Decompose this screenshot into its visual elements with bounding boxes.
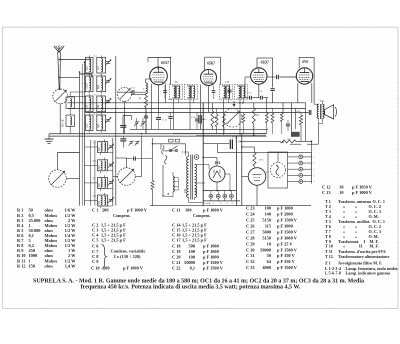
svg-text:C 21: C 21 [172, 260, 181, 265]
svg-text:p F 1500 V: p F 1500 V [203, 266, 224, 271]
svg-text:Trasform. d'uscita per 6V6: Trasform. d'uscita per 6V6 [338, 249, 386, 254]
svg-text:C 31: C 31 [246, 253, 255, 258]
svg-text:C 10: C 10 [91, 266, 100, 271]
svg-text:50000: 50000 [184, 260, 195, 265]
svg-text:C 33: C 33 [246, 265, 255, 270]
svg-text:140: 140 [264, 212, 271, 217]
svg-text:p F 25 V: p F 25 V [277, 241, 293, 246]
svg-text:p F 1000: p F 1000 [203, 249, 219, 254]
svg-text:C 5: C 5 [92, 238, 99, 243]
svg-text:1: 1 [213, 203, 214, 205]
svg-text:L02: L02 [86, 123, 89, 128]
svg-text:2: 2 [220, 203, 221, 205]
svg-text:p F 1000 V: p F 1000 V [123, 266, 144, 271]
svg-text:C 27: C 27 [246, 229, 255, 234]
svg-text:C 1: C 1 [92, 208, 98, 213]
svg-text:L01A: L01A [86, 83, 89, 89]
svg-text:ohm: ohm [45, 263, 54, 268]
svg-text:C 19: C 19 [172, 249, 181, 254]
svg-text:1,5 ÷ 21,5 p F: 1,5 ÷ 21,5 p F [182, 238, 207, 243]
svg-text:6: 6 [313, 175, 314, 177]
svg-text:p F 350 V: p F 350 V [277, 253, 296, 258]
svg-text:2 x (130 ÷ 320): 2 x (130 ÷ 320) [114, 254, 142, 259]
svg-text:5150: 5150 [262, 218, 271, 223]
svg-text:4: 4 [313, 163, 314, 165]
svg-text:T11: T11 [320, 100, 325, 103]
svg-text:L 5-6-7-8: L 5-6-7-8 [325, 270, 341, 275]
svg-text:II: II [359, 244, 363, 249]
svg-text:5Y3: 5Y3 [215, 161, 221, 165]
svg-text:»: » [343, 244, 345, 249]
svg-text:C 11: C 11 [172, 208, 180, 213]
svg-text:p F 1500 V: p F 1500 V [277, 247, 298, 252]
svg-text:Lamp.: Lamp. [204, 202, 211, 205]
svg-text:L03: L03 [86, 104, 89, 109]
svg-text:C 24: C 24 [246, 212, 255, 217]
svg-text:F60: F60 [97, 104, 100, 109]
svg-text:T10: T10 [225, 81, 230, 84]
svg-text:p F 1000: p F 1000 [203, 243, 219, 248]
svg-text:p F 1500 V: p F 1500 V [277, 229, 298, 234]
svg-text:C 12: C 12 [322, 185, 331, 190]
svg-text:200: 200 [102, 208, 109, 213]
svg-text:0,1: 0,1 [190, 266, 195, 271]
svg-text:C 22: C 22 [172, 266, 181, 271]
svg-text:50000: 50000 [195, 188, 198, 195]
svg-text:C 26: C 26 [246, 223, 255, 228]
svg-text:110: 110 [97, 66, 100, 70]
svg-text:p F 1500 V: p F 1500 V [203, 260, 224, 265]
svg-text:M. F.: M. F. [370, 244, 379, 249]
svg-text:p F 1000: p F 1000 [203, 255, 219, 260]
svg-text:C 23: C 23 [246, 206, 255, 211]
svg-text:p F 1500 V: p F 1500 V [277, 218, 298, 223]
svg-text:500: 500 [188, 243, 195, 248]
svg-text:300: 300 [97, 123, 100, 128]
svg-text:6SQ7: 6SQ7 [261, 61, 269, 65]
svg-text:50: 50 [267, 253, 271, 258]
svg-text:C 29: C 29 [246, 241, 255, 246]
svg-text:p F 3000 V: p F 3000 V [277, 235, 298, 240]
svg-text:100: 100 [264, 206, 271, 211]
svg-text:p F 350 V: p F 350 V [277, 259, 296, 264]
svg-text:C 13: C 13 [322, 190, 331, 195]
svg-text:Condens. variabile: Condens. variabile [111, 249, 146, 254]
svg-text:p F 1500 V: p F 1500 V [277, 265, 298, 270]
svg-text:Trasformatore alimentazione: Trasformatore alimentazione [338, 254, 389, 259]
svg-text:p F 2000: p F 2000 [277, 212, 293, 217]
svg-text:5: 5 [313, 169, 314, 171]
svg-text:100: 100 [188, 255, 195, 260]
svg-text:T 10: T 10 [325, 244, 333, 249]
svg-text:T 11: T 11 [325, 249, 333, 254]
svg-text:C 30: C 30 [246, 247, 255, 252]
svg-text:C 16: C 16 [239, 102, 245, 105]
svg-text:Lamp. indicatore gamma: Lamp. indicatore gamma [346, 270, 391, 275]
svg-text:550: 550 [86, 66, 89, 71]
svg-text:1,4 W: 1,4 W [65, 263, 76, 268]
svg-text:T12: T12 [182, 151, 187, 154]
svg-text:600: 600 [97, 84, 100, 89]
svg-text:7: 7 [313, 182, 314, 184]
svg-text:Compens.: Compens. [113, 213, 131, 218]
svg-text:p F 1000: p F 1000 [277, 206, 293, 211]
svg-text:6SK7: 6SK7 [207, 62, 215, 66]
svg-text:150: 150 [29, 263, 36, 268]
svg-text:100: 100 [185, 208, 192, 213]
svg-text:C 28: C 28 [246, 235, 255, 240]
svg-text:C 32: C 32 [246, 259, 255, 264]
svg-text:p F 3000: p F 3000 [277, 223, 293, 228]
svg-text:C 18: C 18 [232, 137, 238, 140]
svg-text:600-1B: 600-1B [63, 119, 65, 127]
svg-text:frequenza 450 kc/s. Potenza in: frequenza 450 kc/s. Potenza indicata di … [81, 285, 301, 291]
svg-text:T 12: T 12 [325, 254, 333, 259]
svg-text:C 9: C 9 [92, 259, 99, 264]
svg-text:C1A: C1A [131, 87, 136, 90]
svg-text:p F 1000 V: p F 1000 V [352, 190, 373, 195]
svg-text:10: 10 [339, 185, 343, 190]
svg-text:6V6: 6V6 [302, 60, 308, 64]
svg-text:6SA7: 6SA7 [161, 61, 169, 65]
svg-text:50000: 50000 [260, 247, 271, 252]
svg-text:1,5 ÷ 21,5 p F: 1,5 ÷ 21,5 p F [101, 238, 126, 243]
svg-text:C 25: C 25 [246, 218, 255, 223]
svg-text:10: 10 [339, 190, 343, 195]
svg-text:100: 100 [188, 249, 195, 254]
svg-text:115: 115 [265, 223, 272, 228]
svg-text:200: 200 [103, 266, 110, 271]
svg-text:4000: 4000 [262, 265, 271, 270]
svg-text:Compens.: Compens. [193, 213, 211, 218]
svg-text:3: 3 [313, 157, 314, 159]
svg-text:220: 220 [184, 188, 187, 193]
svg-text:10: 10 [267, 241, 271, 246]
svg-text:C 20: C 20 [172, 255, 181, 260]
svg-text:C 18: C 18 [236, 141, 242, 144]
svg-text:5000: 5000 [262, 229, 271, 234]
svg-text:Trasformat.: Trasformat. [338, 239, 359, 244]
svg-text:5150: 5150 [262, 235, 271, 240]
svg-text:Z 1: Z 1 [325, 260, 331, 265]
svg-text:C 18: C 18 [172, 243, 181, 248]
svg-text:Avvolgimento filtro M. F.: Avvolgimento filtro M. F. [338, 260, 382, 265]
svg-text:C 11: C 11 [163, 119, 168, 122]
svg-text:R 12: R 12 [17, 263, 26, 268]
svg-text:C 17: C 17 [172, 238, 181, 243]
svg-text:p F 1050 V: p F 1050 V [352, 185, 373, 190]
